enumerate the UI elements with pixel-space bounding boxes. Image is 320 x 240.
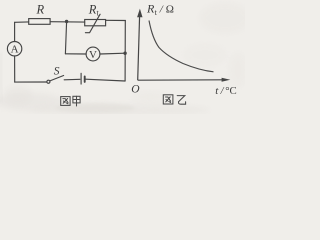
- node junction on top wire: [65, 20, 68, 23]
- switch S lever: [50, 76, 64, 81]
- thermistor Rt body: [85, 20, 106, 26]
- label 图乙: [163, 95, 185, 104]
- wire bottom-left to switch: [15, 81, 47, 83]
- wire left vertical lower: [14, 56, 16, 82]
- svg-text:O: O: [131, 84, 140, 96]
- wire battery to bottom-right corner: [86, 79, 126, 81]
- wire thermistor to top-right corner: [106, 19, 126, 21]
- voltmeter branch left wire: [65, 53, 86, 55]
- svg-text:S: S: [54, 66, 60, 78]
- svg-text:R: R: [88, 2, 97, 16]
- voltmeter branch right wire: [100, 52, 125, 55]
- label 图甲: [61, 96, 80, 106]
- thermistor Rt diagonal: [85, 14, 100, 33]
- graph x-axis: [138, 79, 223, 81]
- wire right vertical: [124, 21, 126, 82]
- svg-text:Ω: Ω: [166, 4, 174, 16]
- voltmeter branch vertical drop: [65, 22, 66, 54]
- y-axis arrowhead: [137, 9, 142, 18]
- voltmeter V: [86, 47, 100, 61]
- paper background: [0, 0, 245, 114]
- svg-text:A: A: [11, 44, 19, 56]
- wire left vertical upper: [14, 22, 16, 41]
- svg-text:V: V: [89, 49, 97, 61]
- resistor R: [29, 19, 50, 25]
- switch S pivot: [47, 80, 50, 83]
- wire resistor R to thermistor Rt: [50, 21, 85, 23]
- node junction on right vertical: [123, 52, 126, 55]
- battery positive plate: [80, 73, 82, 84]
- svg-text:°C: °C: [225, 85, 237, 97]
- graph y-axis: [138, 16, 223, 81]
- battery negative plate: [84, 76, 86, 82]
- x-axis arrowhead: [222, 78, 231, 82]
- wire top-left: ammeter node to resistor R: [15, 21, 29, 23]
- curve Rt vs t: [149, 21, 214, 72]
- ammeter A: [7, 42, 21, 56]
- wire switch to battery: [64, 78, 80, 81]
- svg-text:R: R: [36, 2, 45, 16]
